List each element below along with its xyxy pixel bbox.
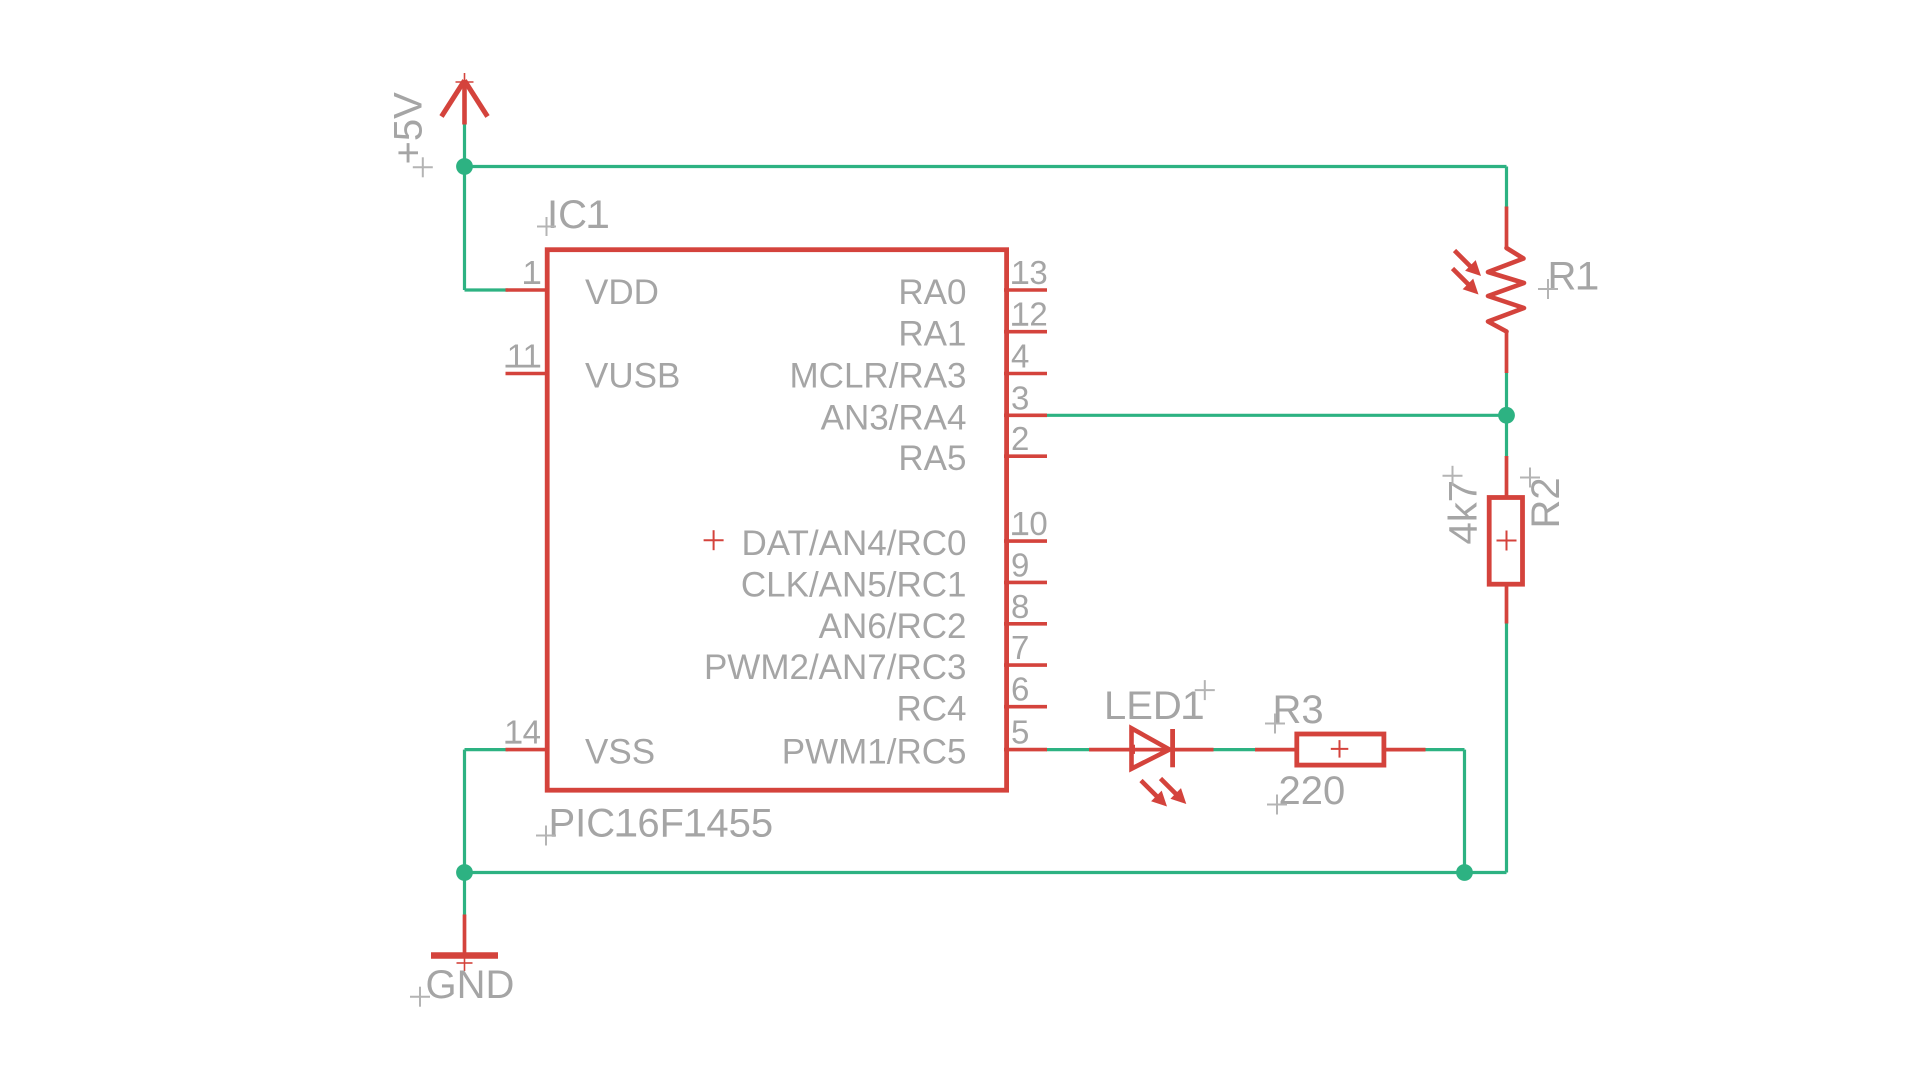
svg-text:2: 2 (1011, 420, 1029, 457)
pin number 13 (1011, 254, 1048, 291)
pin 1 VDD stub (506, 288, 550, 292)
pin 3 AN3 stub (1004, 413, 1047, 417)
svg-text:LED1: LED1 (1104, 684, 1204, 728)
pin 5 RC5 stub (1004, 748, 1047, 752)
pin number 8 (1011, 588, 1029, 625)
pin number 2 (1011, 420, 1029, 457)
resistor R1 LDR (1488, 207, 1524, 374)
svg-text:11: 11 (507, 338, 541, 375)
wire left drop to pin 1 (465, 167, 509, 291)
LED1 light arrow 1 (1141, 781, 1167, 807)
pin name CLK/AN5/RC1 (741, 565, 967, 604)
wire junction to GND symbol (463, 873, 466, 916)
wire pin 3 to R1/R2 node (1046, 414, 1507, 417)
svg-text:RC4: RC4 (896, 690, 966, 729)
resistor R2 4k7 (1489, 456, 1522, 624)
svg-text:14: 14 (504, 714, 541, 751)
svg-text:1: 1 (523, 254, 541, 291)
pin 11 VUSB stub (506, 372, 550, 376)
svg-text:RA5: RA5 (898, 439, 966, 478)
pin 9 RC1 stub (1004, 581, 1047, 585)
pin number 4 (1011, 338, 1029, 375)
LED1 light arrow 2 (1161, 779, 1187, 805)
origin cross R3 label (1265, 714, 1285, 734)
origin cross IC1 label (537, 217, 556, 236)
pin number 12 (1011, 296, 1048, 333)
pin name VDD (585, 273, 659, 312)
svg-text:R3: R3 (1273, 688, 1324, 732)
svg-text:5: 5 (1011, 714, 1029, 751)
junction node R1/R2/pin3 (1498, 407, 1515, 424)
svg-text:7: 7 (1011, 629, 1029, 666)
pin 4 MCLR stub (1004, 372, 1047, 376)
pin name RA1 (898, 315, 966, 354)
pin number 6 (1011, 671, 1029, 708)
ground symbol GND (431, 915, 498, 972)
svg-text:9: 9 (1011, 546, 1029, 583)
pin name VUSB (585, 357, 680, 396)
pin name RA0 (898, 273, 966, 312)
label GND (426, 963, 515, 1007)
svg-text:GND: GND (426, 963, 515, 1007)
svg-text:PWM2/AN7/RC3: PWM2/AN7/RC3 (704, 648, 967, 687)
pin number 14 (504, 714, 541, 751)
pin name RC4 (896, 690, 966, 729)
svg-text:6: 6 (1011, 671, 1029, 708)
R1 light arrow 1 (1455, 251, 1482, 277)
svg-text:IC1: IC1 (547, 193, 609, 237)
wire top rail drop to R1 (1505, 167, 1508, 209)
wire node to R2 top (1505, 415, 1508, 457)
svg-text:CLK/AN5/RC1: CLK/AN5/RC1 (741, 565, 967, 604)
svg-text:3: 3 (1011, 379, 1029, 416)
pin 14 VSS stub (506, 748, 550, 752)
svg-text:MCLR/RA3: MCLR/RA3 (790, 357, 967, 396)
svg-text:220: 220 (1279, 769, 1346, 813)
origin cross LED1 label (1195, 680, 1215, 700)
pin name VSS (585, 733, 655, 772)
pin 12 RA1 stub (1004, 330, 1047, 334)
svg-text:VDD: VDD (585, 273, 659, 312)
svg-text:+5V: +5V (387, 92, 431, 165)
pin name RA5 (898, 439, 966, 478)
origin cross GND label (410, 987, 430, 1007)
LED LED1 (1089, 728, 1214, 768)
label 4k7 (1442, 480, 1486, 545)
wire R3 right to ground rail (1425, 750, 1465, 873)
pin number 7 (1011, 629, 1029, 666)
R1 light arrow 2 (1453, 269, 1479, 295)
wire +5V stem to junction (463, 124, 466, 168)
wire bottom ground rail (465, 871, 1507, 874)
label IC1 (547, 193, 609, 237)
pin name DAT/AN4/RC0 (742, 524, 967, 563)
svg-text:VSS: VSS (585, 733, 655, 772)
label R3 (1273, 688, 1324, 732)
svg-text:R1: R1 (1548, 255, 1599, 299)
pin name MCLR/RA3 (790, 357, 967, 396)
pin number 10 (1011, 505, 1048, 542)
svg-text:8: 8 (1011, 588, 1029, 625)
pin name AN3/RA4 (821, 398, 967, 437)
junction node R3 to ground rail (1456, 864, 1473, 881)
pin number 11 (506, 338, 542, 375)
junction node ground left (456, 864, 473, 881)
origin cross 4k7 label (1443, 466, 1463, 486)
label 220 (1279, 769, 1346, 813)
pin name PWM1/RC5 (782, 733, 967, 772)
wire top horizontal +5V rail (465, 165, 1507, 168)
svg-text:13: 13 (1011, 254, 1048, 291)
label R2 (1524, 477, 1568, 528)
label +5V (387, 92, 431, 165)
svg-text:12: 12 (1011, 296, 1048, 333)
pin name PWM2/AN7/RC3 (704, 648, 967, 687)
pin 2 RA5 stub (1004, 454, 1047, 458)
svg-text:DAT/AN4/RC0: DAT/AN4/RC0 (742, 524, 967, 563)
svg-text:4: 4 (1011, 338, 1029, 375)
origin cross R2 label (1520, 468, 1540, 488)
pin number 9 (1011, 546, 1029, 583)
pin 10 RC0 stub (1004, 539, 1047, 543)
origin cross 220 label (1267, 795, 1287, 815)
svg-text:AN6/RC2: AN6/RC2 (819, 607, 967, 646)
origin cross R1 label (1538, 279, 1558, 299)
wire R1 bottom to node (1505, 372, 1508, 415)
junction node +5V rail (456, 158, 473, 175)
pin 13 RA0 stub (1004, 288, 1047, 292)
label LED1 (1104, 684, 1204, 728)
pin 7 RC3 stub (1004, 663, 1047, 667)
svg-text:RA1: RA1 (898, 315, 966, 354)
resistor R3 220 (1255, 734, 1426, 765)
svg-text:10: 10 (1011, 505, 1048, 542)
wire LED to R3 (1213, 748, 1256, 751)
wire R2 bottom to ground rail (1505, 623, 1508, 873)
pin name AN6/RC2 (819, 607, 967, 646)
IC U1 PIC16F1455 box (547, 250, 1006, 791)
pin 6 RC4 stub (1004, 705, 1047, 709)
pin number 3 (1011, 379, 1029, 416)
supply +5V symbol (442, 73, 488, 125)
svg-text:4k7: 4k7 (1442, 480, 1486, 545)
label R1 (1548, 255, 1599, 299)
origin cross PIC16F1455 label (536, 826, 556, 846)
svg-text:RA0: RA0 (898, 273, 966, 312)
pin 8 RC2 stub (1004, 622, 1047, 626)
svg-text:VUSB: VUSB (585, 357, 680, 396)
pin number 5 (1011, 714, 1029, 751)
svg-text:AN3/RA4: AN3/RA4 (821, 398, 967, 437)
svg-text:PIC16F1455: PIC16F1455 (549, 802, 774, 846)
wire pin 14 to left rail (465, 750, 509, 873)
origin cross IC1 (red) (704, 530, 724, 550)
pin number 1 (523, 254, 541, 291)
origin cross +5V label (413, 157, 433, 177)
wire pin 5 to LED (1046, 748, 1090, 751)
svg-text:PWM1/RC5: PWM1/RC5 (782, 733, 967, 772)
label PIC16F1455 (549, 802, 774, 846)
